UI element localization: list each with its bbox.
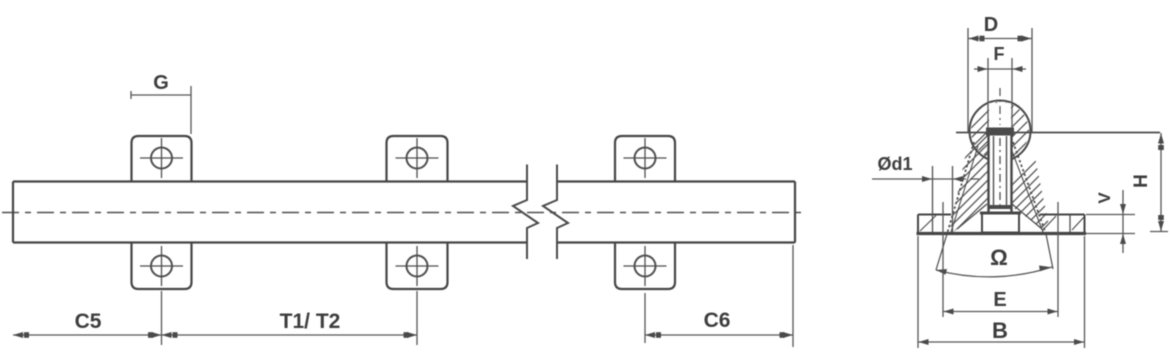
svg-text:Ød1: Ød1 xyxy=(877,154,912,174)
break line right xyxy=(543,165,568,260)
cavity wall left xyxy=(957,204,987,229)
svg-text:V: V xyxy=(1095,192,1114,204)
dimension H xyxy=(1150,133,1168,232)
shaft bar xyxy=(13,182,795,243)
angle arc xyxy=(936,267,1052,277)
cavity wall right xyxy=(1012,204,1042,229)
plate end hatches xyxy=(920,216,1084,232)
angle arc arrows xyxy=(936,266,1050,275)
svg-text:G: G xyxy=(153,72,169,94)
bolt xyxy=(989,135,1012,212)
dimension T1/T2 xyxy=(162,291,418,345)
dimension B xyxy=(918,236,1085,348)
ball xyxy=(970,101,1031,162)
svg-text:H: H xyxy=(1131,174,1152,188)
dimension C5 xyxy=(13,291,162,345)
lug 1 bottom hole xyxy=(140,246,183,286)
lug 1 top xyxy=(132,136,192,182)
shaft centerline xyxy=(2,212,807,214)
dimension F xyxy=(974,58,1026,128)
break line left xyxy=(513,165,538,260)
svg-text:C5: C5 xyxy=(75,310,102,333)
base plate xyxy=(917,215,1087,234)
svg-text:F: F xyxy=(994,44,1005,64)
lug 1 top hole xyxy=(140,138,183,178)
ball hatching xyxy=(896,69,1100,193)
svg-text:E: E xyxy=(993,289,1006,311)
bolt cap xyxy=(986,128,1014,136)
cone right slope xyxy=(1010,142,1053,269)
svg-text:B: B xyxy=(992,318,1008,343)
lug 2 bottom hole xyxy=(396,246,439,286)
lug 3 top xyxy=(615,136,675,182)
ball center clear strip xyxy=(989,103,1011,129)
lug 1 bottom xyxy=(132,242,192,289)
nut xyxy=(980,213,1021,233)
svg-text:T1/ T2: T1/ T2 xyxy=(280,310,341,333)
cone left band hatching xyxy=(878,125,1061,245)
lug 2 bottom xyxy=(387,242,448,289)
washer xyxy=(989,205,1011,210)
plate hole lines left xyxy=(933,166,953,232)
dimension V xyxy=(1086,190,1135,253)
svg-text:Ω: Ω xyxy=(990,245,1008,270)
plate hole lines right xyxy=(1069,215,1071,232)
dimension Od1 xyxy=(872,178,979,180)
lug 3 bottom xyxy=(615,242,675,289)
dimension G xyxy=(131,86,191,134)
svg-text:D: D xyxy=(984,14,998,36)
lug 3 bottom hole xyxy=(624,246,667,286)
lug 3 top hole xyxy=(624,138,667,178)
cone right band hatching xyxy=(952,125,1144,245)
cone left slope xyxy=(936,142,978,270)
horizontal line through ball center xyxy=(956,132,1160,134)
lug 2 top xyxy=(387,136,448,182)
dimension D xyxy=(968,28,1032,133)
dimension C6 xyxy=(645,245,793,347)
lug 2 top hole xyxy=(396,138,439,178)
svg-text:C6: C6 xyxy=(704,309,731,332)
dimension E xyxy=(943,202,1058,317)
part vertical centerline xyxy=(999,88,1001,125)
